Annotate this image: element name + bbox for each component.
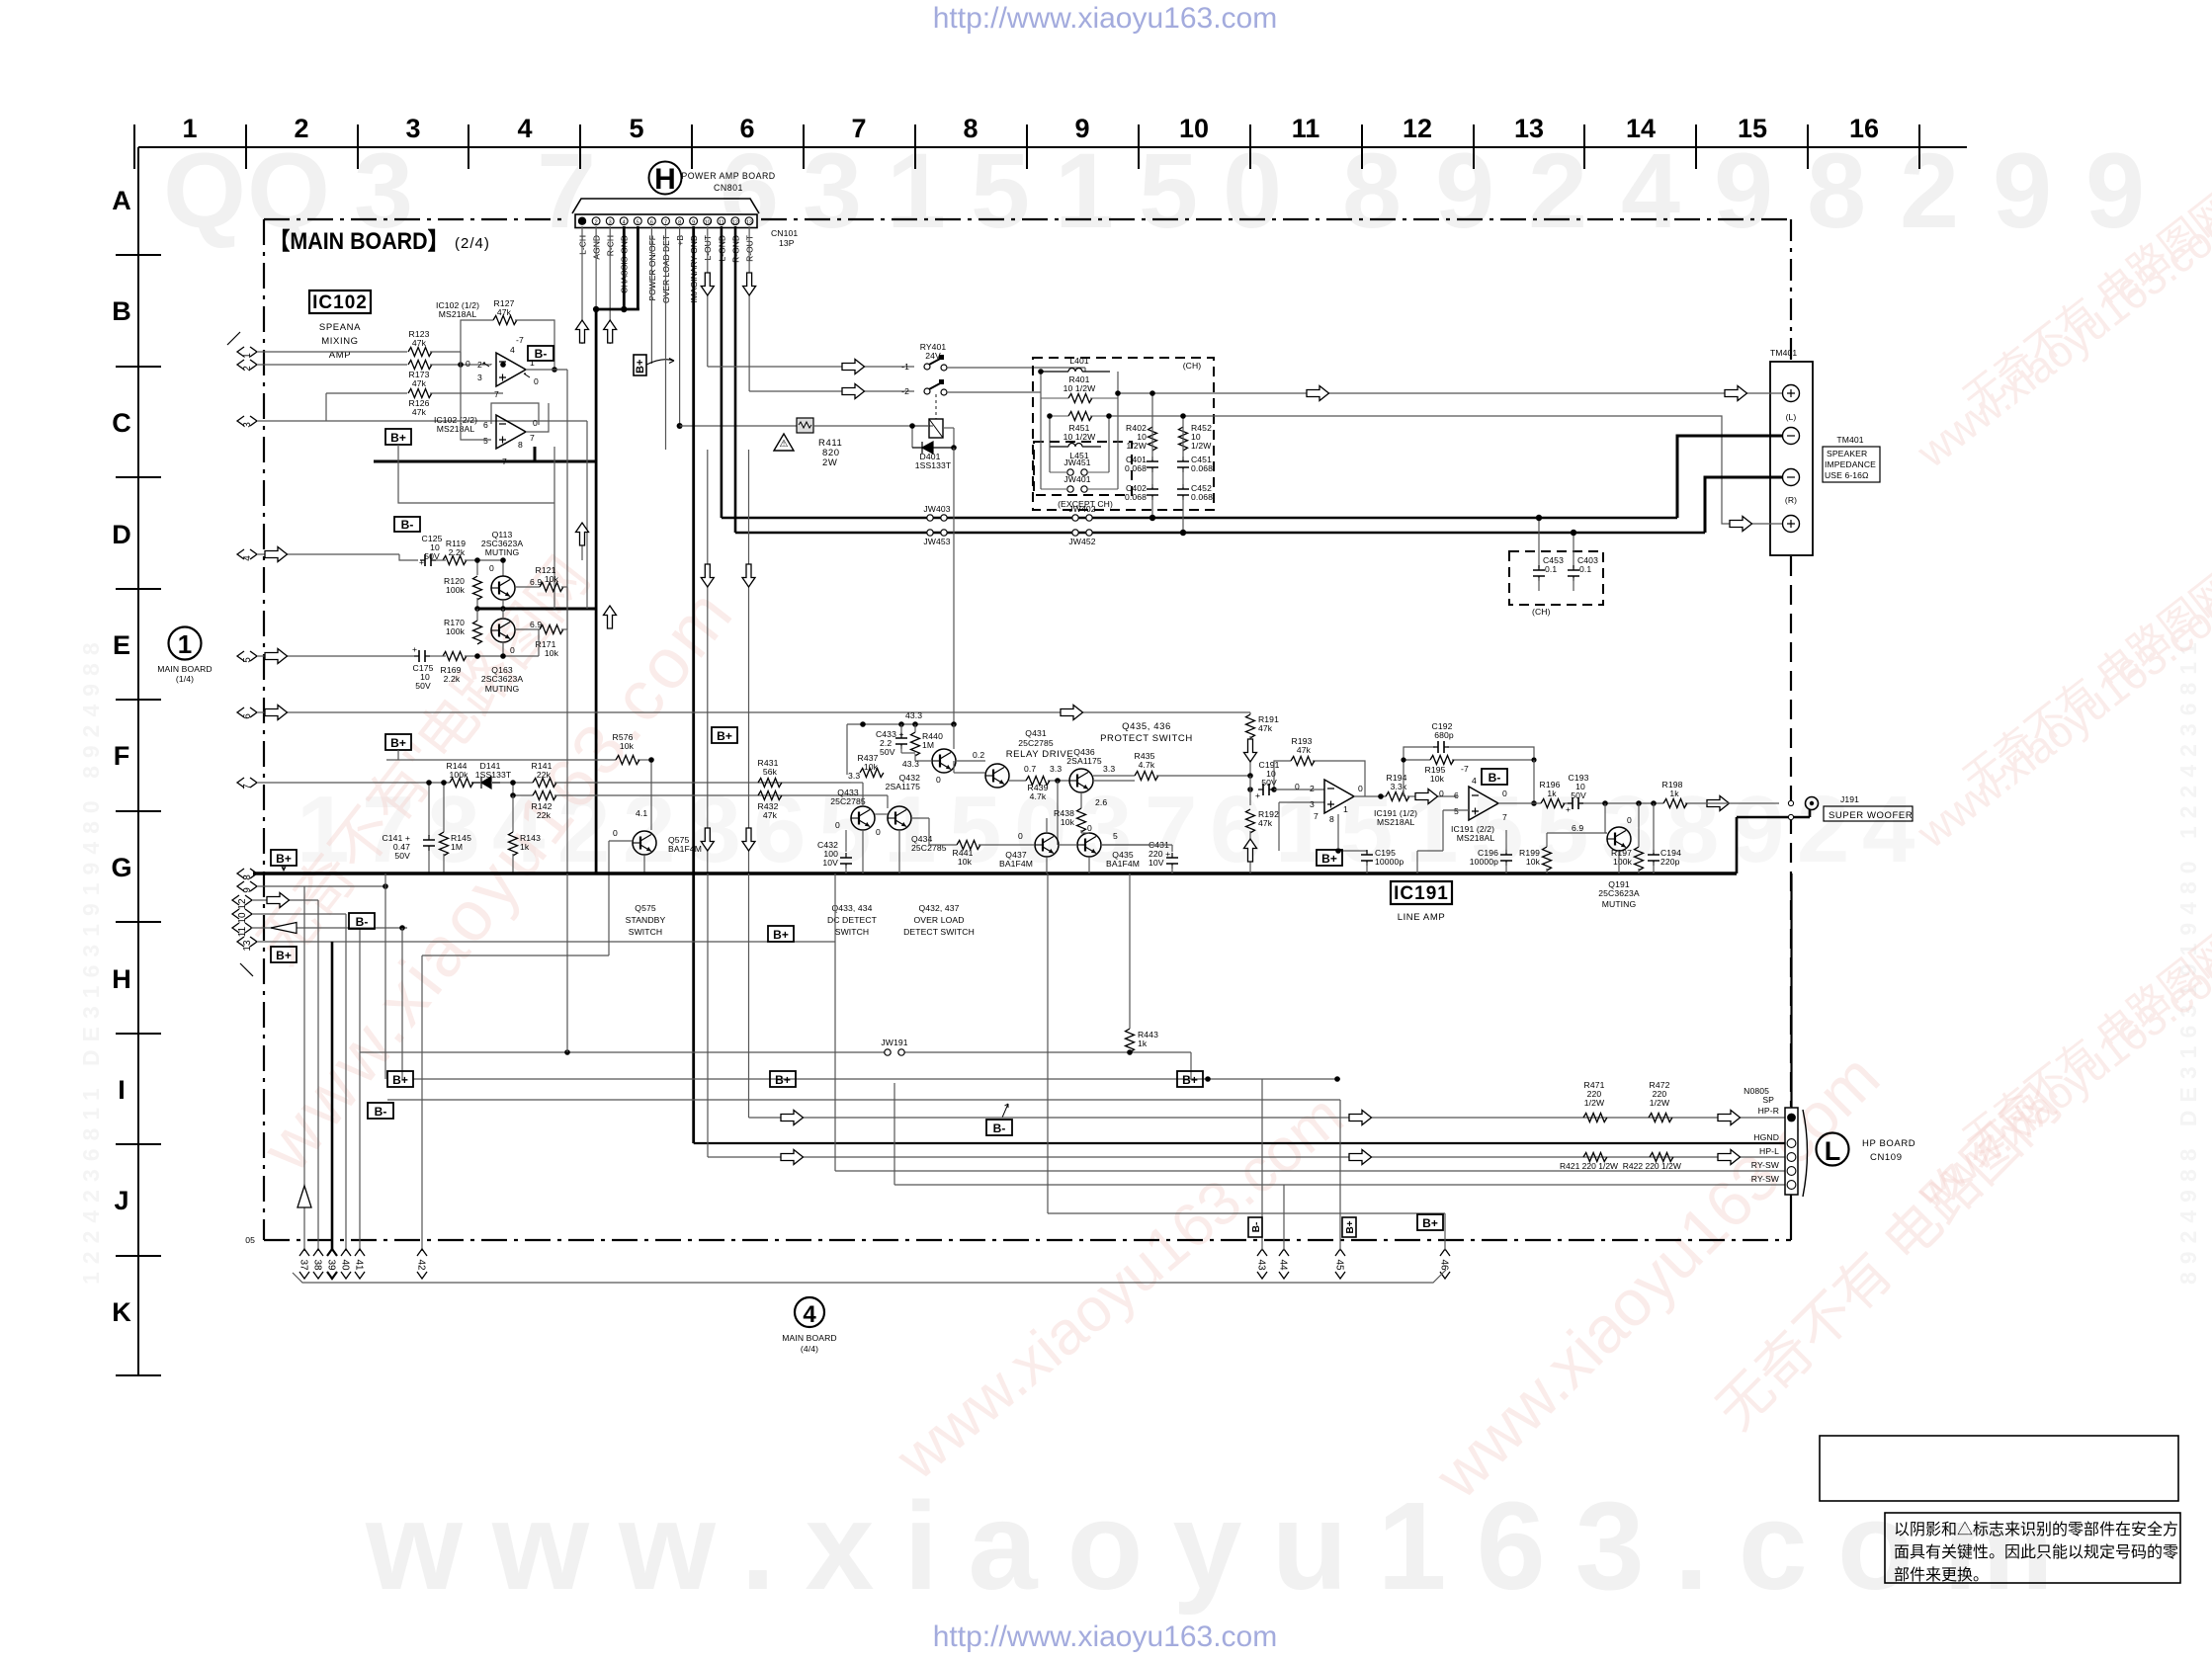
label Q191 25C3623A MUTING [1598, 879, 1640, 909]
transistor Q163 [491, 619, 515, 642]
svg-text:2: 2 [1528, 130, 1587, 250]
svg-text:部件来更换。: 部件来更换。 [1894, 1566, 1989, 1584]
svg-text:6.9: 6.9 [530, 620, 542, 629]
jumper JW452 [1068, 530, 1095, 546]
capacitor C192 680p [1404, 721, 1534, 796]
resistor R451 10 1/2W [1050, 412, 1109, 443]
svg-text:10V: 10V [1149, 858, 1164, 868]
resistor R441 10k [929, 841, 1034, 868]
svg-text:B+: B+ [773, 928, 789, 942]
svg-text:6: 6 [242, 713, 253, 719]
resistor R120 100k [444, 576, 481, 600]
wire super woofer out thick [1737, 800, 1810, 873]
svg-text:10000p: 10000p [1375, 857, 1404, 867]
svg-text:25C2785: 25C2785 [830, 796, 866, 806]
junction snubber [1149, 390, 1186, 536]
svg-text:0.068: 0.068 [1125, 492, 1147, 502]
resistor R119 2.2k [443, 539, 467, 565]
wire B+ feed down [398, 445, 554, 609]
svg-text:RY-SW: RY-SW [1751, 1160, 1780, 1170]
junction R576 [648, 757, 654, 763]
label -7 pin4 [1461, 764, 1507, 822]
label SPEANA MIXING AMP [319, 322, 361, 361]
junction Q163 base [474, 645, 515, 659]
relay coil [929, 394, 943, 438]
svg-text:47k: 47k [1258, 723, 1273, 733]
svg-text:7: 7 [530, 433, 535, 443]
connector CN801 pin 8 [676, 217, 684, 226]
wire op2 plus input [1417, 810, 1469, 873]
svg-text:10: 10 [237, 912, 248, 924]
svg-text:Q575: Q575 [635, 903, 656, 913]
transistor Q431 [973, 750, 1009, 788]
power node B+ rowF [385, 734, 411, 750]
jumper JW401 [1041, 474, 1118, 492]
node output 40 [340, 1249, 352, 1279]
svg-text:DETECT SWITCH: DETECT SWITCH [903, 927, 975, 937]
wire detect column 716 [701, 450, 714, 873]
wire OVER LOAD DET pin 7 [665, 226, 667, 450]
svg-text:0: 0 [1223, 130, 1282, 250]
node input 2 [237, 360, 257, 372]
wire L+ feed [1218, 386, 1782, 401]
svg-text:14: 14 [1626, 114, 1656, 143]
label box TM401 SPEAKER IMPEDANCE [1823, 435, 1880, 482]
resistor R435 4.7k [1093, 751, 1250, 781]
svg-text:TM401: TM401 [1836, 435, 1863, 445]
resistor R141 22k [532, 761, 556, 788]
svg-text:1: 1 [884, 777, 936, 882]
svg-text:13: 13 [242, 940, 253, 952]
wire node3 drop [586, 421, 588, 609]
svg-text:10k: 10k [1061, 817, 1075, 827]
svg-text:25C3623A: 25C3623A [1598, 888, 1640, 898]
svg-text:B-: B- [1489, 771, 1501, 785]
svg-text:9: 9 [1435, 130, 1494, 250]
wire IMAGINARY-GND pin 9 thick trunk [692, 226, 695, 1143]
wire L- thick [1677, 436, 1782, 518]
svg-text:8: 8 [1342, 130, 1402, 250]
svg-text:B+: B+ [392, 1073, 408, 1087]
svg-text:(CH): (CH) [1183, 361, 1202, 371]
node output 41 [354, 1249, 366, 1279]
svg-text:(R): (R) [1785, 495, 1797, 505]
main board dash-dot left border [263, 219, 265, 1240]
svg-text:9: 9 [1732, 777, 1784, 882]
wire node7 [500, 783, 533, 795]
power node B+ op2 [385, 429, 411, 445]
arrow mid op [1415, 789, 1730, 811]
svg-text:0.7: 0.7 [1024, 764, 1036, 774]
relay contact -1 [901, 355, 947, 372]
label Q163 2SC3623A MUTING [481, 665, 524, 694]
svg-text:B-: B- [1251, 1222, 1262, 1233]
svg-text:J191: J191 [1840, 794, 1859, 804]
wire input 2 [258, 364, 407, 366]
capacitor C191 10 50V [1250, 760, 1280, 805]
svg-text:0.1: 0.1 [1545, 564, 1557, 574]
node input 8 [237, 869, 257, 880]
svg-text:I: I [118, 1075, 126, 1105]
inductor L401 [1041, 356, 1110, 372]
resistor R197 100k [1611, 803, 1643, 873]
svg-text:www.xiaoyu163.com: www.xiaoyu163.com [365, 1476, 2084, 1616]
svg-text:41: 41 [354, 1259, 365, 1271]
connector CN801 pin 3 [606, 217, 614, 226]
svg-text:SPEANA: SPEANA [319, 322, 361, 333]
wire L-CH from pin 1 [576, 226, 589, 344]
resistor R443 1k [1126, 873, 1159, 1055]
vertical HP board to bottom border [1790, 1195, 1792, 1240]
resistor R142 22k [532, 791, 556, 821]
node board circle L [1817, 1133, 1916, 1167]
svg-text:10: 10 [705, 219, 711, 225]
svg-text:12: 12 [237, 898, 248, 910]
label DC DETECT SWITCH [827, 903, 878, 937]
svg-text:JW403: JW403 [923, 504, 950, 514]
svg-text:SWITCH: SWITCH [835, 927, 870, 937]
svg-text:POWER AMP BOARD: POWER AMP BOARD [681, 171, 775, 181]
svg-text:3: 3 [609, 219, 612, 225]
svg-text:11: 11 [237, 926, 248, 937]
svg-text:6: 6 [739, 114, 754, 143]
svg-text:SUPER WOOFER: SUPER WOOFER [1829, 810, 1913, 821]
node input 9 [237, 881, 257, 893]
node output 46 [1439, 1249, 1451, 1279]
svg-text:A: A [112, 186, 131, 215]
resistor R471 220 1/2W [1583, 1080, 1607, 1122]
capacitor C196 10000p [1470, 830, 1512, 873]
wire node10 [253, 914, 346, 1251]
svg-text:7: 7 [664, 219, 667, 225]
wire node11 [250, 923, 407, 1252]
junction R191/C191 [1247, 773, 1253, 792]
svg-text:2: 2 [1900, 130, 1959, 250]
capacitor C193 10 50V [1566, 773, 1589, 814]
wire row F to protect [554, 783, 888, 795]
svg-text:13: 13 [1514, 114, 1544, 143]
connector CN801 pin 13 [745, 217, 753, 226]
svg-text:F: F [114, 741, 130, 771]
node output 37 [298, 1249, 310, 1279]
svg-text:3: 3 [1310, 799, 1315, 809]
node input 6 [237, 707, 257, 719]
power node B- op1 [528, 346, 553, 361]
svg-text:CN101: CN101 [771, 228, 798, 238]
connector CN801 pin 2 [592, 217, 600, 226]
svg-text:H: H [654, 163, 676, 196]
svg-text:47k: 47k [1297, 745, 1312, 755]
svg-text:C: C [112, 408, 131, 438]
svg-text:11: 11 [719, 219, 724, 225]
svg-text:B-: B- [401, 518, 414, 532]
resistor R193 47k [1271, 736, 1365, 792]
svg-text:D: D [112, 520, 131, 549]
svg-text:9: 9 [1714, 130, 1773, 250]
svg-text:TM401: TM401 [1770, 348, 1797, 358]
wire R126 to op1 [430, 392, 503, 394]
svg-text:7: 7 [502, 457, 507, 466]
capacitor C175 10 50V [412, 644, 434, 691]
arrowhead up on col 37 [298, 1186, 311, 1207]
svg-text:6: 6 [650, 219, 653, 225]
svg-text:43: 43 [1256, 1259, 1267, 1271]
wire R-GND jumper line JW453 [735, 532, 1705, 535]
resistor R123 47k [408, 329, 432, 357]
svg-text:5: 5 [1454, 806, 1459, 816]
svg-text:2.6: 2.6 [1095, 797, 1107, 807]
bus row G thick [253, 872, 1737, 874]
node input 3 [237, 416, 257, 428]
wire Q431 collector to R439 [1009, 780, 1069, 782]
svg-text:B-: B- [356, 915, 369, 929]
terminal L- [1783, 428, 1800, 445]
svg-text:3: 3 [405, 114, 420, 143]
wire RC snubber columns [1152, 393, 1183, 533]
svg-text:10k: 10k [620, 741, 635, 751]
svg-text:8: 8 [242, 874, 253, 880]
wire R+ feed [1218, 416, 1782, 524]
svg-text:47k: 47k [412, 378, 427, 388]
resistor R169 2.2k [441, 652, 467, 685]
svg-text:0: 0 [1087, 823, 1092, 833]
resistor R437 10k [858, 753, 884, 778]
main board dash-dot top border [264, 218, 568, 220]
svg-text:0: 0 [1295, 782, 1300, 791]
svg-text:1: 1 [1275, 777, 1327, 882]
wire node8/9 columns down [304, 886, 385, 1251]
svg-text:12: 12 [1403, 114, 1432, 143]
svg-text:3: 3 [477, 373, 482, 382]
svg-text:1k: 1k [1669, 789, 1679, 798]
svg-text:100k: 100k [449, 770, 468, 780]
svg-text:BA1F4M: BA1F4M [1106, 859, 1140, 869]
resistor R452 10 1/2W [1179, 423, 1213, 451]
svg-text:1: 1 [182, 114, 197, 143]
svg-text:220p: 220p [1660, 857, 1680, 867]
connector CN801 pin 12 [731, 217, 739, 226]
svg-text:B+: B+ [390, 431, 406, 445]
wire bottom gather line left [293, 1270, 1446, 1283]
wire jumper side links [1041, 398, 1118, 489]
transistor Q437 BA1F4M [999, 831, 1059, 869]
svg-text:B+: B+ [390, 736, 406, 750]
wire Q163 base line [430, 629, 539, 656]
svg-text:Q431: Q431 [1025, 728, 1047, 738]
svg-text:13: 13 [746, 219, 752, 225]
svg-text:1/2W: 1/2W [1127, 441, 1148, 451]
svg-text:47k: 47k [763, 810, 778, 820]
svg-text:10 1/2W: 10 1/2W [1063, 432, 1096, 442]
resistor R440 1M [911, 724, 944, 761]
power node B+ [387, 1071, 413, 1087]
svg-text:JW191: JW191 [881, 1038, 907, 1047]
junction 43.3 [860, 710, 957, 727]
node output 38 [312, 1249, 324, 1279]
resistor R422 220 1/2W [1650, 1153, 1673, 1162]
svg-text:7: 7 [537, 130, 596, 250]
svg-text:-1: -1 [901, 362, 909, 372]
label N0805 SP [1744, 1086, 1774, 1105]
power node B+ [271, 850, 297, 866]
svg-text:9: 9 [1993, 130, 2052, 250]
op-amp IC102 1/2 [466, 335, 539, 399]
wire node13 [258, 941, 835, 943]
wire L-CH lower arrow [576, 523, 589, 560]
resistor R127 47k feedback [493, 298, 517, 325]
wire col 42 [421, 1052, 423, 1251]
op-amp IC102 2/2 [483, 415, 538, 466]
svg-text:(CH): (CH) [1532, 607, 1551, 617]
resistor R472 220 1/2W [1649, 1080, 1672, 1122]
svg-text:SP: SP [1762, 1095, 1774, 1105]
connector J191 SUPER WOOFER [1806, 794, 1914, 821]
svg-text:4: 4 [510, 345, 515, 355]
wire L401/R401 ladder [1041, 372, 1218, 398]
svg-text:B+: B+ [635, 360, 646, 374]
label CN101 13P [771, 228, 798, 248]
svg-text:1k: 1k [1138, 1039, 1148, 1048]
resistor R145 1M [440, 783, 472, 873]
svg-text:50V: 50V [1571, 790, 1586, 800]
resistor R194 3.3k [1386, 773, 1457, 801]
svg-text:3.3: 3.3 [1050, 764, 1062, 774]
svg-text:OVER LOAD: OVER LOAD [913, 915, 964, 925]
svg-text:CN109: CN109 [1870, 1152, 1903, 1163]
svg-text:1k: 1k [1547, 789, 1557, 798]
svg-text:B+: B+ [717, 729, 732, 743]
svg-text:5: 5 [971, 130, 1030, 250]
junction output node [1602, 800, 1657, 806]
jumper JW403 [923, 504, 950, 521]
connector CN801 header circle H [649, 162, 682, 197]
connector CN109 HP board [1785, 873, 1798, 1195]
svg-text:-2: -2 [901, 386, 909, 396]
svg-text:05: 05 [245, 1235, 255, 1245]
wire Q113 collector to R121 [515, 586, 567, 588]
svg-text:B+: B+ [276, 852, 292, 866]
inductor L451 [1050, 444, 1101, 460]
resistor R402 10 1/2W [1126, 423, 1156, 451]
capacitor C195 10000p [1335, 814, 1404, 873]
dashed box C453 C403 [1509, 551, 1603, 605]
svg-text:10k: 10k [1430, 774, 1445, 784]
dashed vertical TM401 to HP board [1790, 556, 1792, 1107]
svg-text:以阴影和△标志来识别的零部件在安全方: 以阴影和△标志来识别的零部件在安全方 [1894, 1521, 2178, 1538]
svg-text:HP-L: HP-L [1759, 1146, 1779, 1156]
svg-text:http://www.xiaoyu163.com: http://www.xiaoyu163.com [933, 1620, 1278, 1653]
svg-text:4.1: 4.1 [636, 808, 647, 818]
svg-text:1224236811 DE31631919480 89249: 1224236811 DE31631919480 8924988 [78, 634, 104, 1285]
label Q431 25C2785 RELAY DRIVE [1006, 728, 1074, 760]
svg-text:3: 3 [242, 422, 253, 428]
junction R439 [1055, 778, 1061, 784]
svg-text:0: 0 [936, 775, 941, 785]
junction L401 [1038, 369, 1121, 396]
svg-text:2: 2 [623, 777, 675, 882]
svg-text:3.3: 3.3 [848, 771, 860, 781]
jumper JW402 [1068, 504, 1095, 521]
svg-text:B+: B+ [1321, 852, 1337, 866]
transistor Q435 BA1F4M [1077, 831, 1140, 869]
svg-text:IC191: IC191 [1394, 883, 1449, 904]
svg-text:5: 5 [483, 436, 488, 446]
wire input 7 [258, 782, 450, 784]
wire node9 [258, 873, 388, 889]
svg-text:IC102: IC102 [312, 292, 368, 313]
svg-text:4: 4 [623, 219, 626, 225]
svg-text:50V: 50V [415, 681, 431, 691]
block label IC191 [1391, 881, 1452, 923]
svg-text:40: 40 [340, 1259, 351, 1271]
svg-text:MUTING: MUTING [485, 684, 520, 694]
transistor Q575 [613, 808, 702, 855]
svg-text:www.xiaoyu163.com: www.xiaoyu163.com [1420, 1039, 1893, 1512]
svg-text:100k: 100k [446, 626, 466, 636]
wire RY-SW line 2 [894, 1083, 1785, 1185]
wire cols 43-46 [1048, 873, 1445, 1251]
resistor R432 47k [758, 791, 782, 821]
svg-text:JW451: JW451 [1063, 457, 1090, 467]
svg-text:(1/4): (1/4) [176, 674, 194, 684]
svg-text:MAIN BOARD: MAIN BOARD [157, 664, 212, 674]
svg-text:Q432, 437: Q432, 437 [918, 903, 959, 913]
node input 13 [237, 937, 257, 952]
power node B+ [770, 1071, 796, 1087]
transistor Q434 25C2785 [876, 806, 947, 853]
svg-text:5: 5 [629, 114, 643, 143]
svg-text:11: 11 [1292, 114, 1320, 143]
svg-text:25C2785: 25C2785 [1018, 738, 1054, 748]
power node B- [1482, 769, 1507, 785]
wire input 4 [258, 547, 418, 562]
wire chassis trunk down [595, 309, 598, 873]
note chinese safety box [1885, 1513, 2180, 1584]
svg-text:+: + [419, 557, 424, 567]
svg-text:2W: 2W [822, 457, 837, 468]
svg-text:5: 5 [1139, 130, 1198, 250]
wire AGND pin 2 to chassis bus [595, 226, 597, 309]
resistor R191 47k [1244, 712, 1280, 776]
svg-text:USE 6-16Ω: USE 6-16Ω [1825, 470, 1869, 480]
svg-text:4: 4 [803, 1301, 816, 1328]
wire POWER ON/OFF pin 6 [650, 226, 652, 364]
svg-text:1: 1 [178, 629, 192, 659]
dash-dot vertical to TM401 [1790, 219, 1792, 362]
wire R-GND pin 12 thick trunk [734, 226, 737, 533]
svg-text:JW402: JW402 [1068, 504, 1095, 514]
resistor R431 56k [758, 758, 782, 788]
svg-text:39: 39 [326, 1259, 337, 1271]
svg-text:10k: 10k [958, 857, 973, 867]
left ruler line [137, 147, 139, 1375]
svg-text:MS218AL: MS218AL [439, 309, 477, 319]
node input 1 [237, 347, 257, 359]
top ruler line [138, 146, 1967, 148]
svg-text:B-: B- [535, 347, 548, 361]
node board circle 1 [157, 627, 212, 685]
label Q575 STANDBY SWITCH [626, 903, 666, 937]
svg-text:+: + [1255, 790, 1260, 800]
svg-text:0: 0 [510, 645, 515, 655]
svg-text:+: + [412, 644, 417, 654]
svg-text:【MAIN BOARD】: 【MAIN BOARD】 [269, 228, 449, 255]
label POWER AMP BOARD CN801 [681, 171, 775, 193]
resistor R421 220 1/2W [1583, 1153, 1607, 1162]
wire CHASSIS-GND pins 4,5 thick [595, 226, 639, 309]
wire Q437/Q435 [1047, 818, 1154, 873]
node output 44 [1278, 1249, 1290, 1279]
